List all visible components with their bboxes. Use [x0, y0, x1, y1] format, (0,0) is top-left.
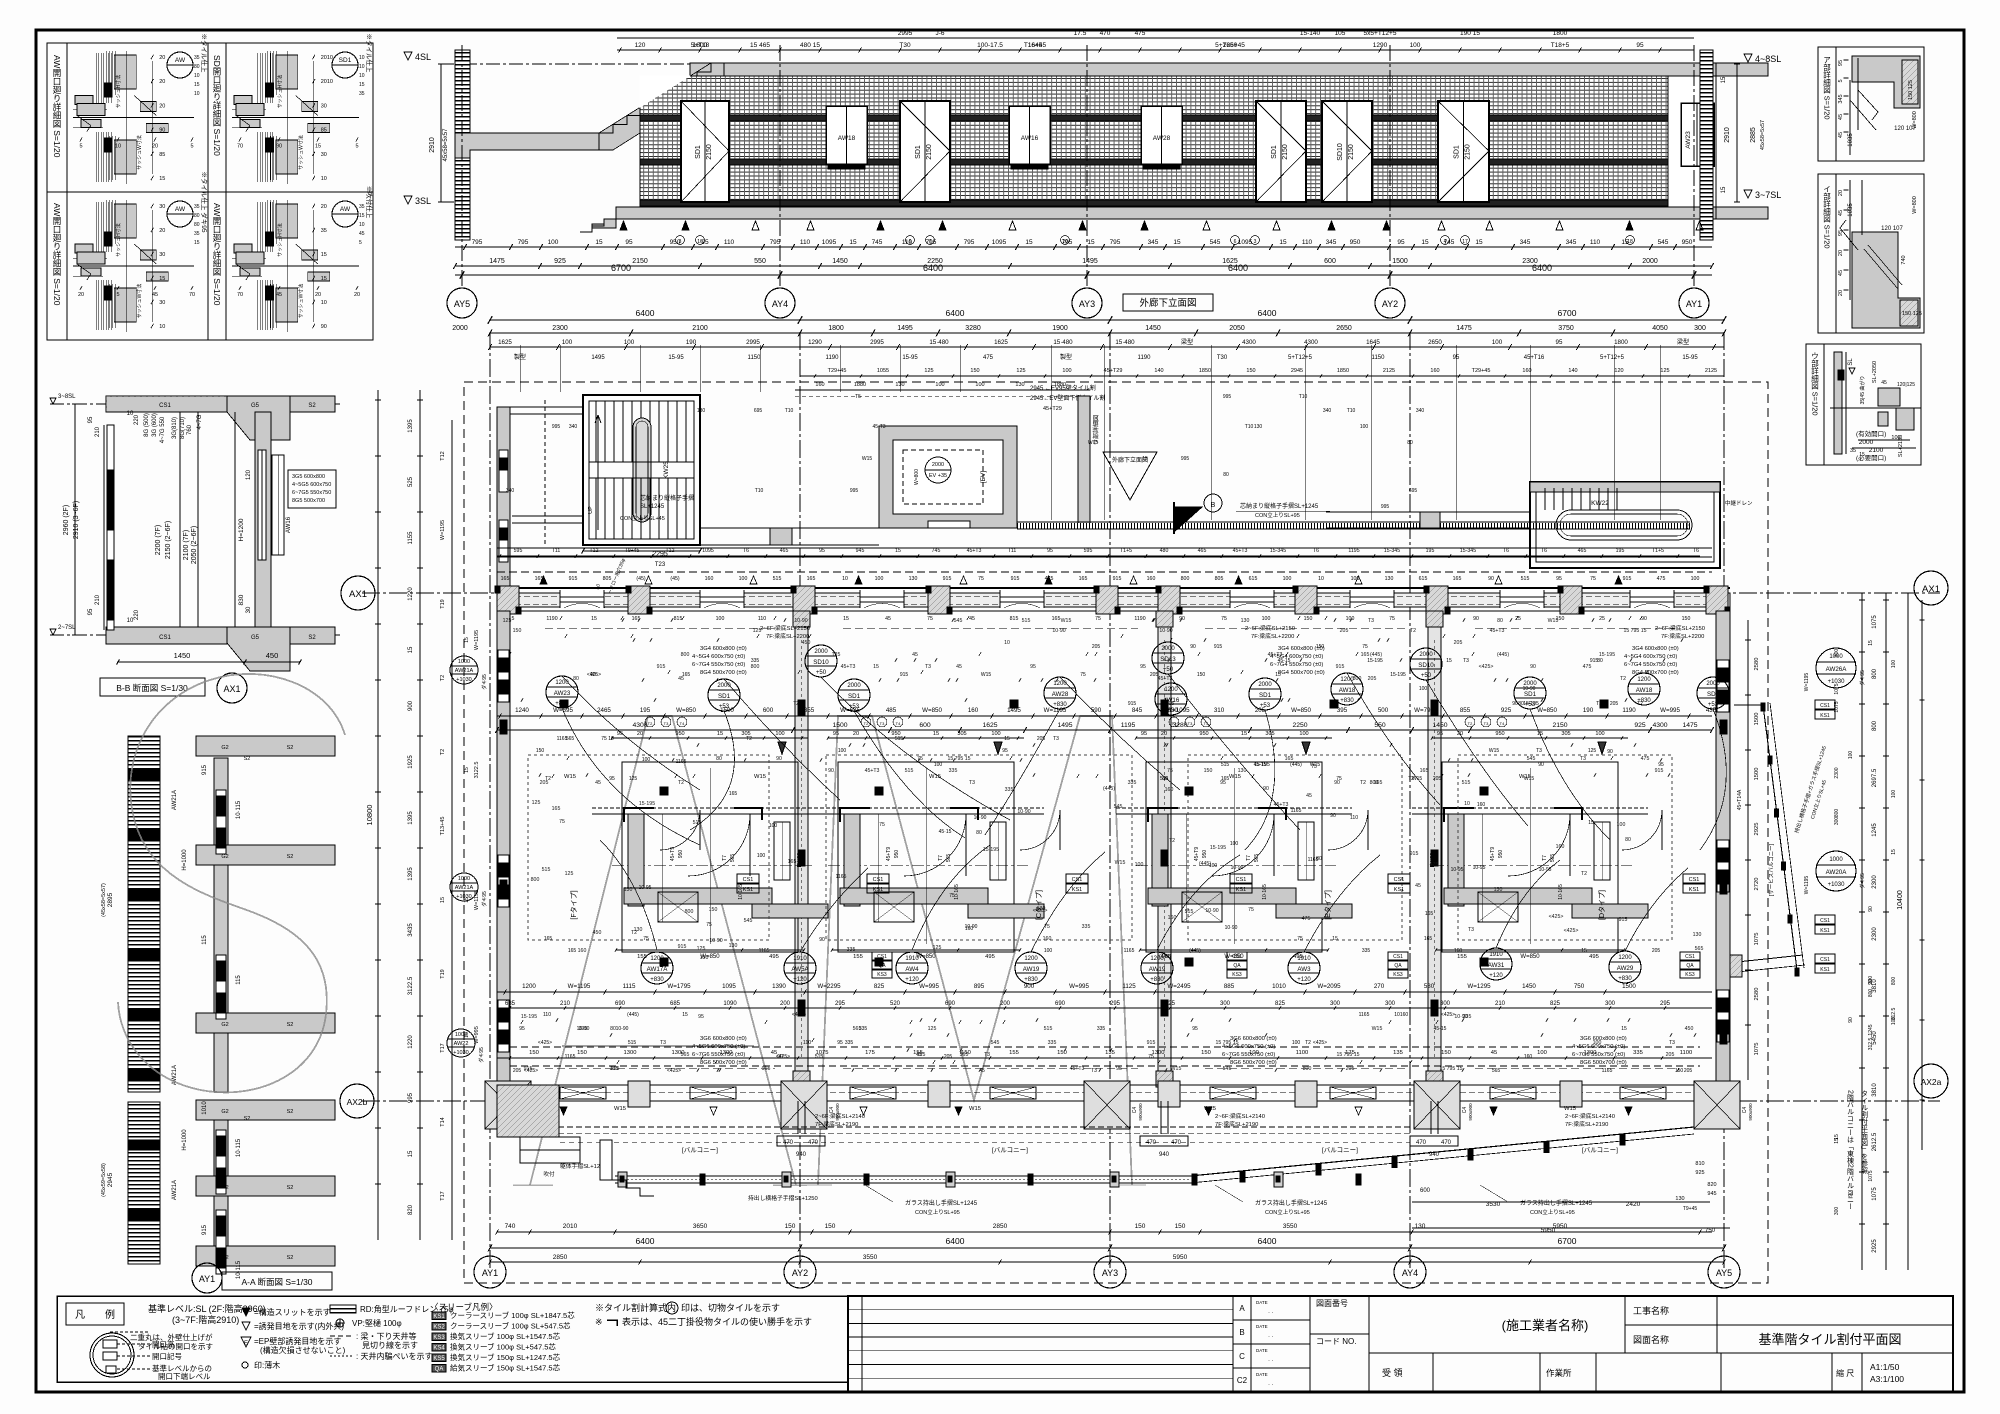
- svg-text:950: 950: [675, 731, 684, 737]
- svg-text:100: 100: [642, 757, 651, 763]
- svg-text:335: 335: [859, 1026, 868, 1032]
- svg-text:825: 825: [874, 983, 885, 990]
- detail box C 部詳細図: [1806, 344, 1921, 465]
- svg-text:芯納まり縦格子手摺: 芯納まり縦格子手摺: [640, 494, 694, 502]
- svg-text:T3: T3: [664, 721, 669, 726]
- svg-text:W=1195: W=1195: [1044, 707, 1067, 714]
- svg-text:[バルコニー]: [バルコニー]: [1582, 1146, 1618, 1154]
- svg-text:W=1795: W=1795: [667, 983, 691, 990]
- svg-text:90: 90: [1473, 616, 1479, 622]
- svg-text:475: 475: [1135, 30, 1146, 37]
- unit bay left wall gray: [1152, 814, 1168, 906]
- plan stairwell KW25: [583, 395, 700, 545]
- elevation level mark nabla 3SL: [404, 196, 412, 204]
- svg-text:95: 95: [625, 239, 633, 246]
- elevation door SD1: [900, 101, 950, 202]
- svg-text:110: 110: [724, 239, 735, 246]
- svg-text:10·90: 10·90: [974, 815, 987, 821]
- svg-text:45+T9: 45+T9: [886, 847, 892, 862]
- svg-text:6400: 6400: [1258, 308, 1277, 318]
- svg-text:T10: T10: [785, 408, 794, 414]
- svg-text:4~7G: 4~7G: [197, 414, 203, 429]
- plan balcony slab lines: [615, 1175, 1190, 1177]
- svg-text:1055: 1055: [877, 368, 889, 374]
- revision rows table: [848, 1309, 1233, 1311]
- svg-text:15·480: 15·480: [929, 339, 949, 346]
- svg-text:W=850: W=850: [1291, 707, 1311, 714]
- svg-text:20: 20: [1161, 731, 1167, 737]
- svg-text:6400: 6400: [1228, 263, 1248, 273]
- svg-text:130: 130: [697, 408, 706, 414]
- svg-text:10: 10: [127, 618, 134, 624]
- svg-text:100: 100: [757, 853, 766, 859]
- svg-text:130: 130: [1238, 768, 1247, 774]
- svg-text:W15: W15: [564, 774, 576, 780]
- svg-text:2000: 2000: [1706, 681, 1720, 687]
- svg-text:1035: 1035: [1848, 203, 1854, 217]
- unit bay door arc: [904, 814, 966, 876]
- svg-text:210: 210: [95, 594, 101, 605]
- svg-text:515: 515: [1044, 1026, 1053, 1032]
- label circle AW26A right wall: [1816, 648, 1856, 688]
- svg-text:S2: S2: [287, 745, 294, 751]
- svg-text:2~6F:梁底SL+2140: 2~6F:梁底SL+2140: [1565, 1112, 1615, 1120]
- svg-text:15·195: 15·195: [1210, 845, 1226, 851]
- svg-text:90: 90: [1538, 762, 1544, 768]
- svg-text:B: B: [1239, 1328, 1244, 1337]
- unit bay dashed top line: [1412, 807, 1648, 809]
- svg-text:2300: 2300: [1872, 875, 1878, 889]
- svg-text:B: B: [1211, 502, 1216, 509]
- svg-text:150: 150: [1204, 768, 1213, 774]
- unit bay witness lines: [709, 768, 711, 944]
- svg-text:100: 100: [1891, 660, 1897, 669]
- svg-text:2850: 2850: [993, 1223, 1008, 1230]
- svg-text:125: 125: [1588, 748, 1597, 754]
- svg-text:125: 125: [1660, 368, 1669, 374]
- svg-text:205: 205: [611, 1066, 620, 1072]
- label circle AW29: [1609, 951, 1641, 983]
- svg-text:35|45 曲がり: 35|45 曲がり: [1859, 376, 1866, 405]
- svg-text:AW21A: AW21A: [455, 668, 474, 674]
- plan corridor wall AX1 band: [497, 587, 1730, 589]
- svg-text:165: 165: [1079, 576, 1088, 582]
- svg-text:KW25: KW25: [663, 461, 670, 479]
- svg-text:6400: 6400: [946, 1236, 965, 1246]
- svg-text:サッシュW寸法: サッシュW寸法: [298, 284, 305, 319]
- svg-text:160: 160: [1168, 915, 1177, 921]
- unit bay mid dashdot: [828, 864, 1028, 866]
- svg-text:CON立上りSL+95: CON立上りSL+95: [1265, 1208, 1310, 1216]
- svg-text:サッシュH寸法: サッシュH寸法: [277, 75, 284, 109]
- svg-text:335: 335: [845, 1040, 854, 1046]
- svg-text:795: 795: [472, 239, 483, 246]
- svg-text:205: 205: [1666, 1052, 1675, 1058]
- svg-text:1245: 1245: [1872, 823, 1878, 837]
- svg-text:100: 100: [548, 239, 559, 246]
- svg-text:15-95: 15-95: [902, 355, 918, 361]
- svg-text:100: 100: [1230, 841, 1239, 847]
- svg-text:795: 795: [1110, 239, 1121, 246]
- svg-text:10: 10: [1062, 239, 1068, 245]
- svg-text:AY4: AY4: [772, 299, 788, 309]
- svg-text:45+T3: 45+T3: [967, 548, 982, 554]
- svg-text:100: 100: [716, 616, 725, 622]
- svg-text:915: 915: [1011, 576, 1020, 582]
- svg-text:AW20A: AW20A: [1826, 869, 1848, 876]
- svg-text:1395: 1395: [408, 419, 414, 433]
- svg-text:T11: T11: [1008, 548, 1017, 554]
- svg-text:15-195: 15-195: [1254, 762, 1270, 768]
- svg-text:1220: 1220: [408, 1035, 414, 1049]
- svg-text:125: 125: [933, 945, 942, 951]
- svg-text:· ·: · ·: [1268, 1334, 1274, 1340]
- svg-text:5+T12+5: 5+T12+5: [1288, 355, 1313, 361]
- svg-text:6~7G6 550x750 (±0): 6~7G6 550x750 (±0): [692, 1052, 745, 1058]
- svg-text:1165: 1165: [1124, 948, 1135, 954]
- plan dim row B2: [497, 1007, 1712, 1009]
- svg-text:8G (500): 8G (500): [144, 413, 150, 437]
- unit bay corner bracket right: [950, 808, 978, 820]
- svg-text:W=995: W=995: [919, 983, 939, 990]
- svg-text:作業所: 作業所: [1546, 1368, 1572, 1378]
- elevation level line 4SL: [440, 63, 1716, 65]
- svg-text:1200: 1200: [1618, 955, 1632, 961]
- unit dashed boundary rects: [528, 755, 769, 940]
- svg-text:190 15: 190 15: [1460, 30, 1480, 37]
- plan party wall blocks: [793, 611, 810, 627]
- plan bottom dim rows: [497, 1231, 1712, 1233]
- svg-text:1165: 1165: [1602, 1068, 1613, 1074]
- svg-text:150: 150: [1201, 1050, 1211, 1056]
- svg-text:T3: T3: [1580, 756, 1586, 762]
- svg-text:2000: 2000: [1642, 258, 1658, 265]
- svg-text:70: 70: [237, 144, 243, 150]
- svg-text:950: 950: [1350, 239, 1361, 246]
- svg-text:1190: 1190: [1622, 707, 1636, 714]
- svg-text:2150 (2~6F): 2150 (2~6F): [165, 521, 172, 559]
- svg-text:1500: 1500: [1622, 983, 1636, 990]
- svg-text:T30: T30: [1217, 355, 1228, 361]
- svg-text:KS5: KS5: [433, 1356, 445, 1362]
- svg-text:1475: 1475: [489, 258, 505, 265]
- svg-text:T2: T2: [864, 721, 869, 726]
- svg-text:(3~7F:階高2910): (3~7F:階高2910): [172, 1314, 239, 1325]
- svg-text:825: 825: [1275, 1001, 1286, 1007]
- svg-text:800: 800: [1872, 668, 1878, 679]
- svg-text:(445): (445): [1189, 948, 1201, 954]
- svg-text:10·90: 10·90: [1017, 809, 1030, 815]
- svg-text:950: 950: [1495, 731, 1504, 737]
- svg-text:10: 10: [359, 55, 365, 61]
- svg-text:2945←EV壁面下側タイル割: 2945←EV壁面下側タイル割: [1030, 394, 1105, 402]
- plan bottom left small stair: [608, 1180, 654, 1196]
- svg-text:+50: +50: [1421, 673, 1432, 679]
- svg-text:800: 800: [685, 909, 694, 915]
- svg-text:15: 15: [1275, 672, 1281, 678]
- svg-text:335: 335: [1082, 924, 1091, 930]
- label circle SD1: [1697, 677, 1729, 709]
- svg-text:4300: 4300: [1304, 339, 1318, 346]
- svg-text:15-95: 15-95: [668, 355, 684, 361]
- svg-text:VP:堅樋 100φ: VP:堅樋 100φ: [352, 1318, 402, 1328]
- svg-text:15: 15: [1446, 658, 1452, 664]
- plan balcony diagonal slab: [1190, 1127, 1694, 1176]
- svg-text:[Fタイプ]: [Fタイプ]: [569, 890, 578, 919]
- svg-text:15: 15: [873, 664, 879, 670]
- svg-text:4300: 4300: [1652, 722, 1667, 729]
- svg-text:345: 345: [1326, 239, 1337, 246]
- svg-text:150: 150: [1057, 1050, 1067, 1056]
- plan right inner dim chain: [1747, 620, 1749, 1080]
- svg-text:1000: 1000: [458, 876, 470, 882]
- svg-text:サッシュH寸法: サッシュH寸法: [115, 75, 122, 109]
- svg-text:6700: 6700: [1558, 308, 1577, 318]
- svg-text:T4: T4: [1500, 721, 1505, 726]
- svg-text:545: 545: [1223, 1066, 1232, 1072]
- svg-text:17: 17: [1462, 239, 1468, 245]
- svg-text:1925: 1925: [408, 755, 414, 769]
- svg-text:3122.5: 3122.5: [474, 762, 480, 779]
- svg-text:AW18: AW18: [1339, 687, 1356, 694]
- svg-text:545: 545: [744, 918, 753, 924]
- svg-text:AW開口廻り詳細図 S=1/20: AW開口廻り詳細図 S=1/20: [212, 203, 222, 306]
- svg-text:KS3: KS3: [1685, 972, 1695, 978]
- svg-text:T17: T17: [440, 1043, 446, 1052]
- plan column C7 on AX1: [1295, 586, 1317, 614]
- svg-text:100: 100: [1595, 731, 1604, 737]
- svg-text:35: 35: [321, 228, 327, 234]
- svg-text:940: 940: [1429, 1152, 1440, 1158]
- svg-text:805: 805: [1215, 576, 1224, 582]
- svg-text:2010: 2010: [563, 1223, 578, 1230]
- svg-text:T3: T3: [1484, 721, 1489, 726]
- elevation grid bubble AY5: [447, 288, 477, 318]
- elevation grid dashdot verticals: [461, 45, 463, 288]
- svg-text:6400: 6400: [923, 263, 943, 273]
- svg-text:AW3: AW3: [1297, 966, 1311, 973]
- svg-text:75: 75: [879, 822, 885, 828]
- svg-text:2960 (2F): 2960 (2F): [63, 505, 70, 535]
- svg-text:T11: T11: [552, 548, 561, 554]
- svg-text:AY3: AY3: [1102, 1268, 1118, 1278]
- svg-text:120|125: 120|125: [1897, 382, 1915, 388]
- svg-text:70: 70: [189, 292, 195, 298]
- elevation grid bubble AY1: [1679, 288, 1709, 318]
- svg-text:195: 195: [1616, 548, 1625, 554]
- plan dim row B under circles: [497, 991, 1712, 993]
- plan column on AX2 4: [928, 1081, 950, 1107]
- svg-text:縮 尺: 縮 尺: [1836, 1368, 1854, 1378]
- elevation top dim rows: [617, 37, 1694, 39]
- svg-text:10·90: 10·90: [1205, 908, 1218, 914]
- svg-text:ア部詳細図 S=1/20: ア部詳細図 S=1/20: [1822, 56, 1831, 120]
- grid bubble AX2b plan left: [340, 1084, 374, 1118]
- svg-text:T2: T2: [1620, 676, 1626, 682]
- svg-text:SL+1245: SL+1245: [640, 504, 665, 510]
- svg-text:45+T3: 45+T3: [841, 664, 856, 670]
- svg-text:AW16: AW16: [1021, 135, 1039, 142]
- svg-text:10·90: 10·90: [1159, 628, 1172, 634]
- svg-text:W=1195: W=1195: [474, 630, 480, 650]
- svg-text:190: 190: [1583, 707, 1594, 714]
- svg-text:SD10: SD10: [1337, 143, 1344, 161]
- svg-text:T10: T10: [1245, 424, 1254, 430]
- label circle AW18: [1331, 673, 1363, 705]
- svg-text:815: 815: [1010, 616, 1019, 622]
- svg-text:20: 20: [78, 292, 84, 298]
- svg-text:110: 110: [1590, 239, 1601, 246]
- svg-text:7F:梁底SL+2200: 7F:梁底SL+2200: [766, 632, 809, 640]
- svg-text:20: 20: [315, 292, 321, 298]
- svg-text:210: 210: [560, 1001, 571, 1007]
- svg-text:+50: +50: [816, 670, 827, 676]
- svg-text:900x900: 900x900: [1748, 1103, 1753, 1121]
- svg-text:8G4 500x700 (±0): 8G4 500x700 (±0): [1278, 670, 1325, 676]
- plan balcony wall AX2 band: [497, 1084, 1730, 1086]
- svg-text:1000: 1000: [458, 659, 470, 665]
- svg-text:2125: 2125: [1383, 368, 1395, 374]
- svg-text:1095: 1095: [992, 239, 1007, 246]
- svg-text:2~6F:梁底SL+2140: 2~6F:梁底SL+2140: [1215, 1112, 1265, 1120]
- svg-text:KS4: KS4: [433, 1346, 445, 1352]
- elevation right level labels: [1744, 54, 1752, 62]
- left section bottom title A-A: [222, 1272, 332, 1290]
- svg-text:T3: T3: [880, 721, 885, 726]
- svg-text:805: 805: [603, 576, 612, 582]
- svg-text:95: 95: [88, 608, 94, 615]
- svg-text:1010: 1010: [1272, 983, 1286, 990]
- unit bay inner fixtures: [874, 892, 914, 922]
- svg-text:80: 80: [194, 222, 200, 228]
- svg-text:120: 120: [1614, 368, 1623, 374]
- svg-text:T5: T5: [855, 394, 861, 400]
- svg-text:: 天井内騙ぺいを示す: : 天井内騙ぺいを示す: [356, 1351, 432, 1361]
- svg-text:T3: T3: [1053, 736, 1059, 742]
- svg-text:AW21A: AW21A: [172, 1180, 178, 1200]
- svg-text:AW開口廻り詳細図 S=1/20: AW開口廻り詳細図 S=1/20: [52, 203, 62, 306]
- svg-text:340: 340: [569, 424, 578, 430]
- svg-text:125: 125: [753, 628, 762, 634]
- svg-text:915: 915: [1619, 917, 1628, 923]
- elevation dim row main 6400: [455, 274, 1712, 276]
- svg-text:6: 6: [909, 239, 912, 245]
- svg-text:915: 915: [202, 764, 208, 775]
- svg-text:95: 95: [833, 731, 839, 737]
- svg-text:915: 915: [900, 672, 909, 678]
- svg-text:2000: 2000: [932, 462, 944, 468]
- svg-text:90: 90: [159, 128, 165, 134]
- svg-text:ダキ95: ダキ95: [481, 891, 488, 907]
- svg-text:(445): (445): [1497, 652, 1509, 658]
- svg-text:15: 15: [1588, 820, 1594, 826]
- unit bay door arc: [1212, 814, 1274, 876]
- svg-text:T1+5: T1+5: [1120, 548, 1132, 554]
- left section ladder strip upper: [128, 736, 160, 1092]
- svg-text:750: 750: [1705, 1228, 1716, 1234]
- svg-text:W=995: W=995: [1660, 707, 1680, 714]
- svg-text:2200 (7F): 2200 (7F): [155, 525, 162, 555]
- svg-text:(445): (445): [1159, 954, 1171, 960]
- svg-text:480 15: 480 15: [800, 42, 820, 49]
- svg-text:T6: T6: [743, 548, 749, 554]
- svg-text:810: 810: [1695, 1161, 1704, 1167]
- svg-text:KS3: KS3: [877, 972, 887, 978]
- svg-text:1075: 1075: [1834, 701, 1840, 712]
- svg-text:1200: 1200: [1637, 677, 1651, 683]
- svg-text:KS1: KS1: [1394, 887, 1404, 893]
- svg-text:ガラス持出し手摺SL+1245: ガラス持出し手摺SL+1245: [905, 1199, 978, 1207]
- svg-text:160: 160: [1477, 802, 1486, 808]
- svg-text:T2: T2: [746, 736, 752, 742]
- svg-text:945: 945: [1707, 1191, 1716, 1197]
- plan wall slit triangles: [540, 576, 547, 584]
- svg-text:565: 565: [730, 854, 736, 863]
- svg-text:2580: 2580: [1754, 988, 1760, 1001]
- svg-text:300: 300: [1834, 1207, 1840, 1216]
- plan column C4 on AX1: [928, 586, 950, 614]
- svg-text:15: 15: [843, 616, 849, 622]
- svg-text:CS1: CS1: [873, 877, 884, 883]
- svg-text:2150: 2150: [926, 144, 933, 160]
- svg-text:例: 例: [105, 1308, 115, 1321]
- plan balcony posts: [618, 1172, 627, 1187]
- svg-text:160: 160: [1430, 368, 1439, 374]
- svg-text:W=1195: W=1195: [1804, 673, 1810, 692]
- svg-text:110: 110: [543, 1012, 551, 1018]
- svg-text:+830: +830: [1618, 976, 1632, 982]
- svg-text:(構造欠損させないこと): (構造欠損させないこと): [260, 1345, 346, 1355]
- svg-text:10: 10: [1394, 1012, 1400, 1018]
- elevation tile belt band 2: [640, 159, 1668, 165]
- svg-text:160: 160: [578, 948, 587, 954]
- elevation lower slab band: [616, 207, 1716, 219]
- svg-text:600: 600: [1324, 258, 1336, 265]
- svg-text:300: 300: [1330, 1001, 1341, 1007]
- svg-text:サッシュW寸法: サッシュW寸法: [136, 284, 143, 319]
- svg-text:1165: 1165: [565, 1054, 576, 1060]
- svg-text:開口下端レベル: 開口下端レベル: [158, 1371, 211, 1381]
- svg-text:270: 270: [1374, 983, 1385, 990]
- svg-text:QA: QA: [435, 1367, 444, 1373]
- svg-text:550: 550: [754, 258, 766, 265]
- svg-text:545: 545: [1527, 756, 1536, 762]
- svg-text:10: 10: [1004, 640, 1010, 646]
- detail cell drawing SD12: [276, 55, 298, 89]
- svg-text:T9+45: T9+45: [1683, 1206, 1698, 1212]
- svg-text:110: 110: [803, 1040, 811, 1046]
- svg-text:95: 95: [1047, 548, 1053, 554]
- svg-text:470: 470: [1100, 30, 1111, 37]
- svg-text:凡: 凡: [75, 1309, 85, 1321]
- svg-text:35: 35: [194, 231, 200, 237]
- svg-text:15: 15: [1475, 239, 1483, 246]
- svg-text:6400: 6400: [636, 1236, 655, 1246]
- unit bay corner bracket left: [840, 808, 870, 822]
- svg-text:100: 100: [1062, 368, 1071, 374]
- svg-text:2995: 2995: [870, 339, 884, 346]
- svg-text:95: 95: [1116, 1066, 1122, 1072]
- svg-text:120: 120: [635, 42, 646, 49]
- label circle AW28: [1044, 677, 1076, 709]
- svg-text:15: 15: [194, 240, 200, 246]
- svg-text:T2: T2: [545, 776, 551, 782]
- svg-text:AX1: AX1: [223, 684, 240, 694]
- svg-text:T2: T2: [1360, 780, 1366, 786]
- svg-text:2925: 2925: [1872, 1239, 1878, 1253]
- svg-text:800: 800: [531, 877, 540, 883]
- svg-text:150: 150: [513, 628, 522, 634]
